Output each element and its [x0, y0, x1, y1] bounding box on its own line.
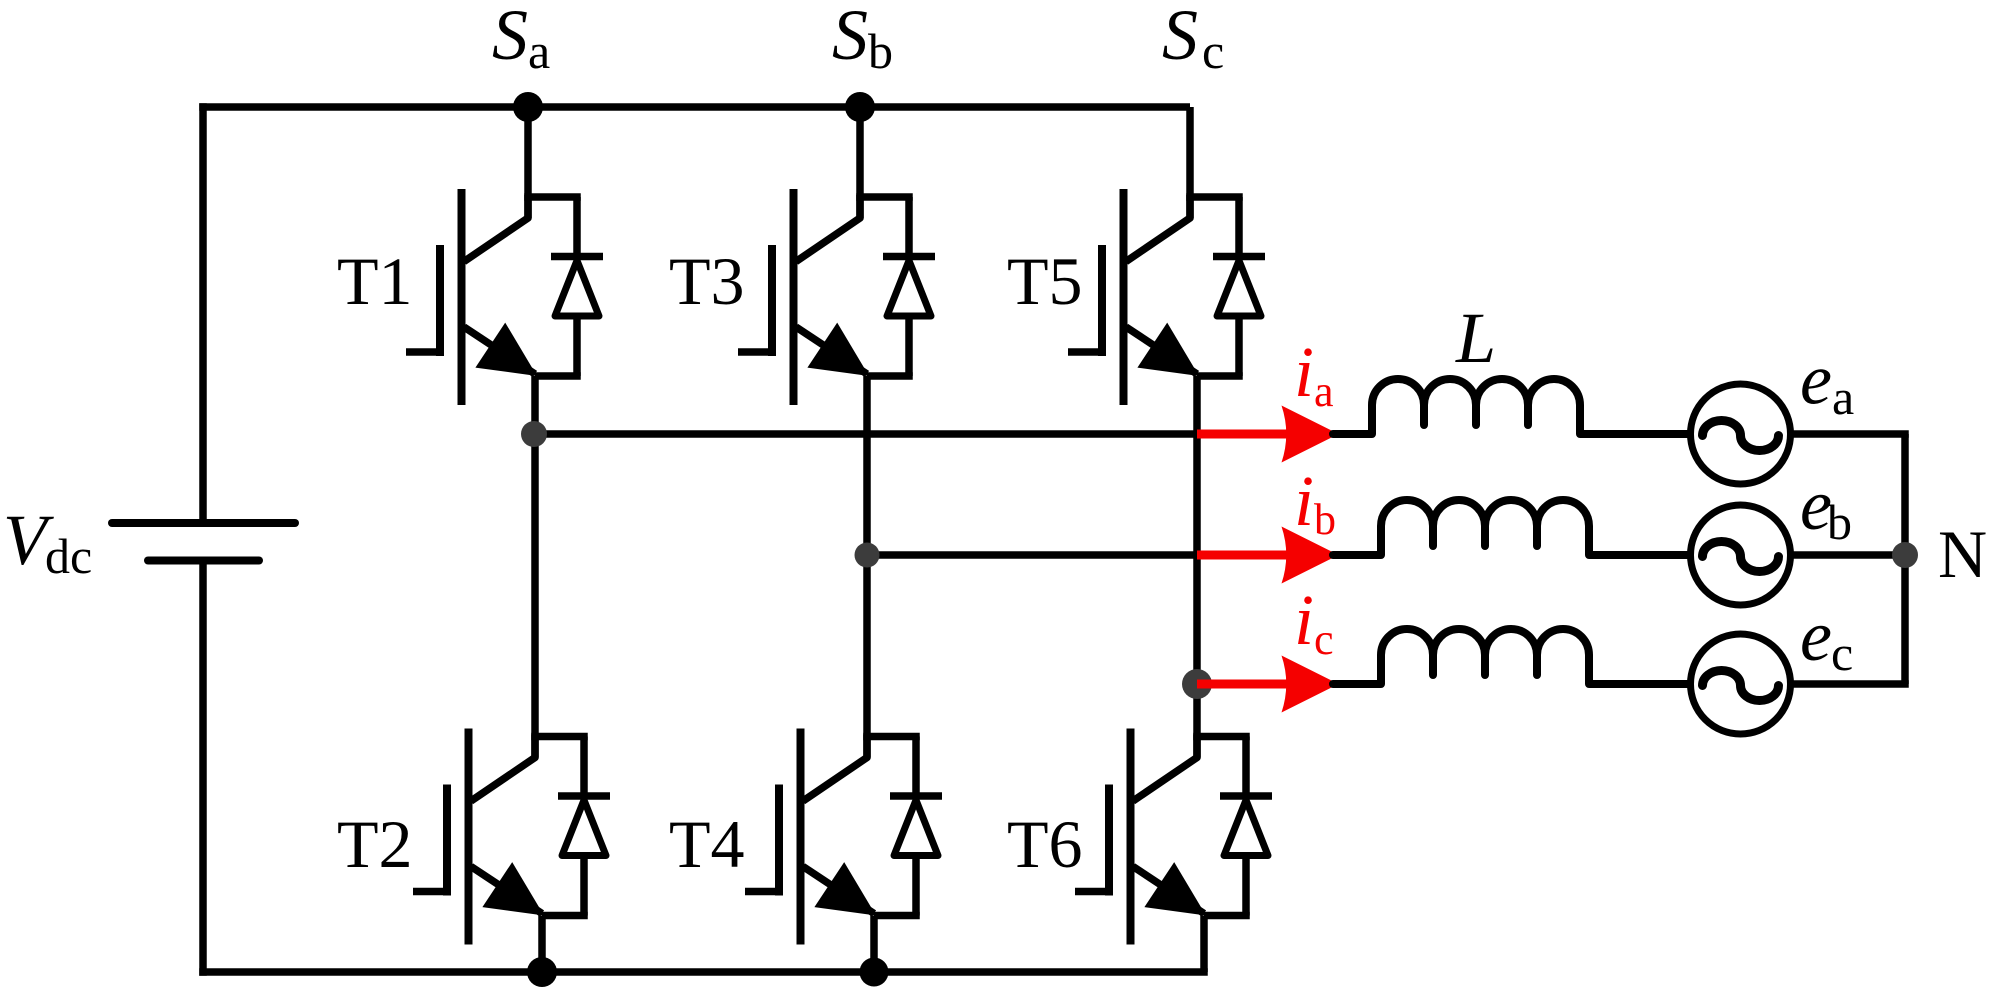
- transistor T2: emitter arrow: [482, 862, 544, 915]
- wire: left DC link, top segment: [199, 103, 207, 523]
- diode of T5: cathode lead: [1235, 197, 1243, 259]
- diode of T3: cathode bar: [883, 253, 935, 261]
- diode of T1: cathode bar: [551, 253, 603, 261]
- transistor T1: emitter bar wire: [535, 372, 581, 380]
- diode of T2: cathode lead: [580, 737, 588, 799]
- transistor T4: collector stub and base diagonal: [803, 735, 867, 802]
- wire: T5 collector to diode cathode: [1186, 193, 1243, 201]
- junction node Sa on DC+ rail: [513, 92, 543, 122]
- diode of T6: triangle: [1224, 800, 1268, 856]
- current arrow ib: head: [1282, 527, 1339, 584]
- svg-text:T5: T5: [1007, 243, 1083, 319]
- svg-text:T2: T2: [337, 806, 413, 882]
- wire: T3 collector to diode cathode: [856, 193, 913, 201]
- inductor L phase a: [1333, 379, 1690, 434]
- transistor T1: emitter diagonal: [464, 327, 535, 374]
- node: leg c midpoint junction: [1182, 669, 1212, 699]
- svg-text:i: i: [1294, 332, 1314, 412]
- diode of T2: triangle: [562, 800, 606, 856]
- svg-text:a: a: [528, 23, 550, 79]
- diode of T4: cathode bar: [890, 792, 942, 800]
- wire: phase a output from leg a midpoint: [534, 430, 1197, 438]
- transistor T5: gate lead: [1068, 348, 1102, 356]
- transistor T3: gate lead: [738, 348, 772, 356]
- AC source ec: circle: [1691, 634, 1791, 734]
- transistor T3: collector stub and base diagonal: [796, 195, 860, 262]
- svg-text:a: a: [1832, 369, 1854, 425]
- wire: leg b collector feed from DC+ rail: [856, 107, 864, 218]
- inductor L phase b: [1333, 500, 1690, 555]
- battery Vdc positive plate: [112, 519, 295, 527]
- svg-text:S: S: [492, 0, 528, 75]
- svg-text:T6: T6: [1007, 806, 1083, 882]
- transistor T1: collector stub and base diagonal: [464, 195, 528, 262]
- wire: phase b output from leg b midpoint: [867, 551, 1197, 559]
- current arrow ia: shaft: [1197, 430, 1294, 439]
- svg-text:i: i: [1294, 580, 1314, 660]
- diode of T1: cathode lead: [573, 197, 581, 259]
- diode of T5: anode lead: [1235, 316, 1243, 376]
- transistor T5: emitter arrow: [1137, 323, 1199, 376]
- AC source eb: circle: [1691, 505, 1791, 605]
- diode of T2: anode lead: [580, 856, 588, 916]
- transistor T6: emitter diagonal: [1133, 867, 1204, 914]
- svg-text:b: b: [868, 23, 893, 79]
- wire: T2 collector to diode cathode: [531, 733, 588, 741]
- transistor T1: gate lead: [406, 348, 440, 356]
- svg-text:b: b: [1827, 494, 1852, 550]
- svg-text:L: L: [1455, 298, 1496, 378]
- transistor T1: channel bar: [458, 189, 466, 405]
- wire: leg a midpoint vertical: [531, 376, 539, 758]
- transistor T5: emitter diagonal: [1126, 327, 1197, 374]
- transistor T2: gate bar: [443, 785, 451, 896]
- transistor T3: emitter arrow: [807, 323, 869, 376]
- svg-text:b: b: [1314, 495, 1336, 544]
- transistor T5: collector stub and base diagonal: [1126, 195, 1190, 262]
- inductor L phase c: [1333, 629, 1690, 684]
- wire: neutral bus vertical: [1901, 434, 1909, 684]
- diode of T2: cathode bar: [558, 792, 610, 800]
- junction node Sb on DC+ rail: [845, 92, 875, 122]
- transistor T2: emitter bar wire: [542, 912, 588, 920]
- AC source ea: circle: [1691, 384, 1791, 484]
- svg-text:a: a: [1314, 367, 1334, 416]
- svg-text:dc: dc: [45, 528, 92, 584]
- transistor T4: emitter diagonal: [803, 867, 874, 914]
- transistor T5: channel bar: [1120, 189, 1128, 405]
- wire: leg a collector feed from DC+ rail: [524, 107, 532, 218]
- wire: ea to neutral bus: [1791, 430, 1909, 438]
- current arrow ic: head: [1282, 656, 1339, 713]
- transistor T4: channel bar: [797, 729, 805, 945]
- wire: leg b midpoint vertical: [863, 376, 871, 758]
- svg-text:S: S: [1162, 0, 1198, 75]
- wire: leg a emitter return to DC- rail: [538, 916, 546, 973]
- transistor T6: collector stub and base diagonal: [1133, 735, 1197, 802]
- diode of T3: triangle: [887, 261, 931, 317]
- wire: leg c collector feed from DC+ rail: [1186, 107, 1194, 218]
- transistor T2: emitter diagonal: [471, 867, 542, 914]
- wire: left DC link, bottom segment: [199, 561, 207, 976]
- transistor T4: gate bar: [775, 785, 783, 896]
- transistor T1: emitter arrow: [475, 323, 537, 376]
- transistor T4: emitter arrow: [814, 862, 876, 915]
- svg-text:e: e: [1800, 596, 1832, 676]
- wire: leg c emitter return to DC- rail: [1200, 916, 1208, 973]
- wire: negative DC rail (bottom bus): [199, 968, 1208, 976]
- current arrow ib: shaft: [1197, 551, 1294, 560]
- wire: eb to neutral bus: [1791, 551, 1909, 559]
- transistor T2: channel bar: [465, 729, 473, 945]
- diode of T5: cathode bar: [1213, 253, 1265, 261]
- transistor T3: emitter diagonal: [796, 327, 867, 374]
- svg-text:N: N: [1938, 516, 1987, 592]
- wire: ec to neutral bus: [1791, 680, 1909, 688]
- transistor T2: gate lead: [413, 888, 447, 896]
- svg-text:c: c: [1314, 615, 1334, 664]
- diode of T6: anode lead: [1242, 856, 1250, 916]
- diode of T4: triangle: [894, 800, 938, 856]
- transistor T4: gate lead: [745, 888, 779, 896]
- svg-text:c: c: [1202, 23, 1224, 79]
- diode of T3: cathode lead: [905, 197, 913, 259]
- current arrow ic: shaft: [1197, 680, 1294, 689]
- svg-text:c: c: [1831, 625, 1853, 681]
- wire: leg c midpoint vertical: [1193, 376, 1201, 758]
- transistor T6: gate lead: [1075, 888, 1109, 896]
- transistor T3: emitter bar wire: [867, 372, 913, 380]
- transistor T6: gate bar: [1105, 785, 1113, 896]
- AC source ec: sine symbol: [1703, 671, 1779, 701]
- svg-text:T4: T4: [669, 806, 745, 882]
- junction on DC- rail, leg a: [527, 957, 557, 987]
- node: leg a midpoint junction: [521, 421, 547, 447]
- transistor T4: emitter bar wire: [874, 912, 920, 920]
- node N: neutral junction: [1892, 542, 1918, 568]
- transistor T6: channel bar: [1127, 729, 1135, 945]
- svg-text:e: e: [1800, 340, 1832, 420]
- wire: T6 collector to diode cathode: [1193, 733, 1250, 741]
- svg-text:i: i: [1294, 461, 1314, 541]
- svg-text:T1: T1: [337, 243, 413, 319]
- node: leg b midpoint junction: [855, 543, 880, 568]
- transistor T5: emitter bar wire: [1197, 372, 1243, 380]
- transistor T1: gate bar: [436, 245, 444, 356]
- transistor T3: channel bar: [790, 189, 798, 405]
- transistor T6: emitter bar wire: [1204, 912, 1250, 920]
- wire: T4 collector to diode cathode: [863, 733, 920, 741]
- diode of T5: triangle: [1217, 261, 1261, 317]
- svg-text:T3: T3: [669, 243, 745, 319]
- transistor T3: gate bar: [768, 245, 776, 356]
- transistor T5: gate bar: [1098, 245, 1106, 356]
- diode of T6: cathode bar: [1220, 792, 1272, 800]
- diode of T4: cathode lead: [912, 737, 920, 799]
- diode of T4: anode lead: [912, 856, 920, 916]
- diode of T6: cathode lead: [1242, 737, 1250, 799]
- current arrow ia: head: [1282, 406, 1339, 463]
- transistor T6: emitter arrow: [1144, 862, 1206, 915]
- transistor T2: collector stub and base diagonal: [471, 735, 535, 802]
- AC source ea: sine symbol: [1703, 421, 1779, 451]
- battery Vdc negative plate: [148, 557, 259, 565]
- wire: leg b emitter return to DC- rail: [870, 916, 878, 973]
- diode of T3: anode lead: [905, 316, 913, 376]
- diode of T1: anode lead: [573, 316, 581, 376]
- wire: T1 collector to diode cathode: [524, 193, 581, 201]
- wire: positive DC rail (top bus): [199, 103, 1190, 111]
- junction on DC- rail, leg b: [860, 958, 889, 987]
- diode of T1: triangle: [555, 261, 599, 317]
- AC source eb: sine symbol: [1703, 542, 1779, 572]
- svg-text:S: S: [832, 0, 868, 75]
